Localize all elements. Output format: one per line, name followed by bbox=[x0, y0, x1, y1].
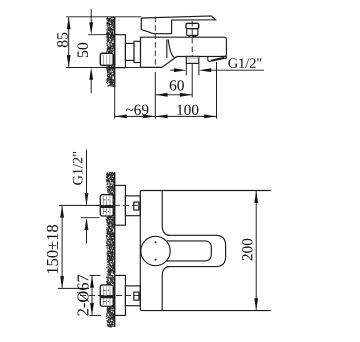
ext line bottom datum bbox=[66, 66, 162, 68]
inlet centerline top bbox=[96, 204, 140, 206]
dim 60 bbox=[154, 72, 156, 119]
ext line escutcheon top bbox=[88, 34, 115, 36]
wall section hatch (front view) bbox=[106, 172, 116, 328]
dim Ø67 bbox=[91, 276, 93, 315]
in-wall fitting top (front view) bbox=[100, 195, 113, 216]
pull knob ext lines bbox=[185, 64, 187, 76]
G1/2 leader (front view) bbox=[86, 150, 88, 205]
inlet centerline bottom bbox=[80, 295, 140, 297]
in-wall fitting bottom (front view) bbox=[100, 285, 113, 306]
label 150±18 bbox=[47, 225, 58, 273]
union nut top (front view) bbox=[125, 196, 140, 216]
ext line inlet top bbox=[59, 204, 100, 206]
pull knob under spout bbox=[186, 56, 199, 63]
label 100 bbox=[177, 105, 198, 115]
label 2-Ø67 bbox=[77, 275, 89, 316]
ext line lever top bbox=[66, 16, 141, 18]
wall section hatch (side view) bbox=[106, 17, 116, 87]
wall face line (front view) bbox=[114, 172, 116, 327]
label ~69 bbox=[126, 105, 149, 115]
G1/2 leader (side view) bbox=[170, 69, 176, 71]
dim 50 bbox=[90, 9, 92, 25]
handle lever inner contour bbox=[166, 241, 211, 261]
handle boss circle bbox=[141, 236, 170, 265]
escutcheon bottom (front view) bbox=[115, 275, 126, 315]
diverter knob (side view) bbox=[186, 23, 199, 37]
label 50 bbox=[77, 43, 88, 57]
label 60 bbox=[170, 80, 184, 90]
label G1/2 (front view) bbox=[73, 152, 83, 185]
wall face line (side view) bbox=[114, 17, 116, 87]
label G1/2 (side view) bbox=[228, 58, 261, 68]
diverter centerline bbox=[191, 21, 193, 63]
dim 150±18 bbox=[61, 206, 63, 288]
connector pipe (side view) bbox=[134, 41, 141, 62]
cartridge centerline bbox=[154, 17, 156, 67]
label 200 bbox=[242, 239, 252, 261]
dim ~69 and 100 bbox=[114, 87, 116, 119]
wall escutcheon (side view) bbox=[115, 35, 126, 68]
union nut (side view) bbox=[125, 43, 134, 60]
faucet body (front view) bbox=[140, 191, 270, 311]
body face column bbox=[162, 191, 170, 236]
label 85 bbox=[57, 33, 68, 48]
spout outlet bbox=[208, 56, 224, 61]
in-wall supply fitting (side view) bbox=[100, 53, 113, 65]
handle lever + cartridge housing (side view) bbox=[141, 16, 215, 34]
aerator end cap bbox=[222, 56, 226, 58]
ext line fitting bottom bbox=[81, 217, 100, 219]
handle pad outer contour bbox=[167, 235, 226, 266]
union nut bottom (front view) bbox=[125, 286, 140, 306]
spout root contour bbox=[166, 39, 168, 58]
ext line 150 bottom bbox=[58, 287, 89, 289]
escutcheon top (front view) bbox=[115, 185, 126, 225]
dim 200 bbox=[255, 191, 257, 310]
dim 85 bbox=[68, 18, 70, 67]
up arrow to fitting bottom bbox=[86, 229, 88, 244]
faucet body (side view) bbox=[141, 37, 227, 67]
